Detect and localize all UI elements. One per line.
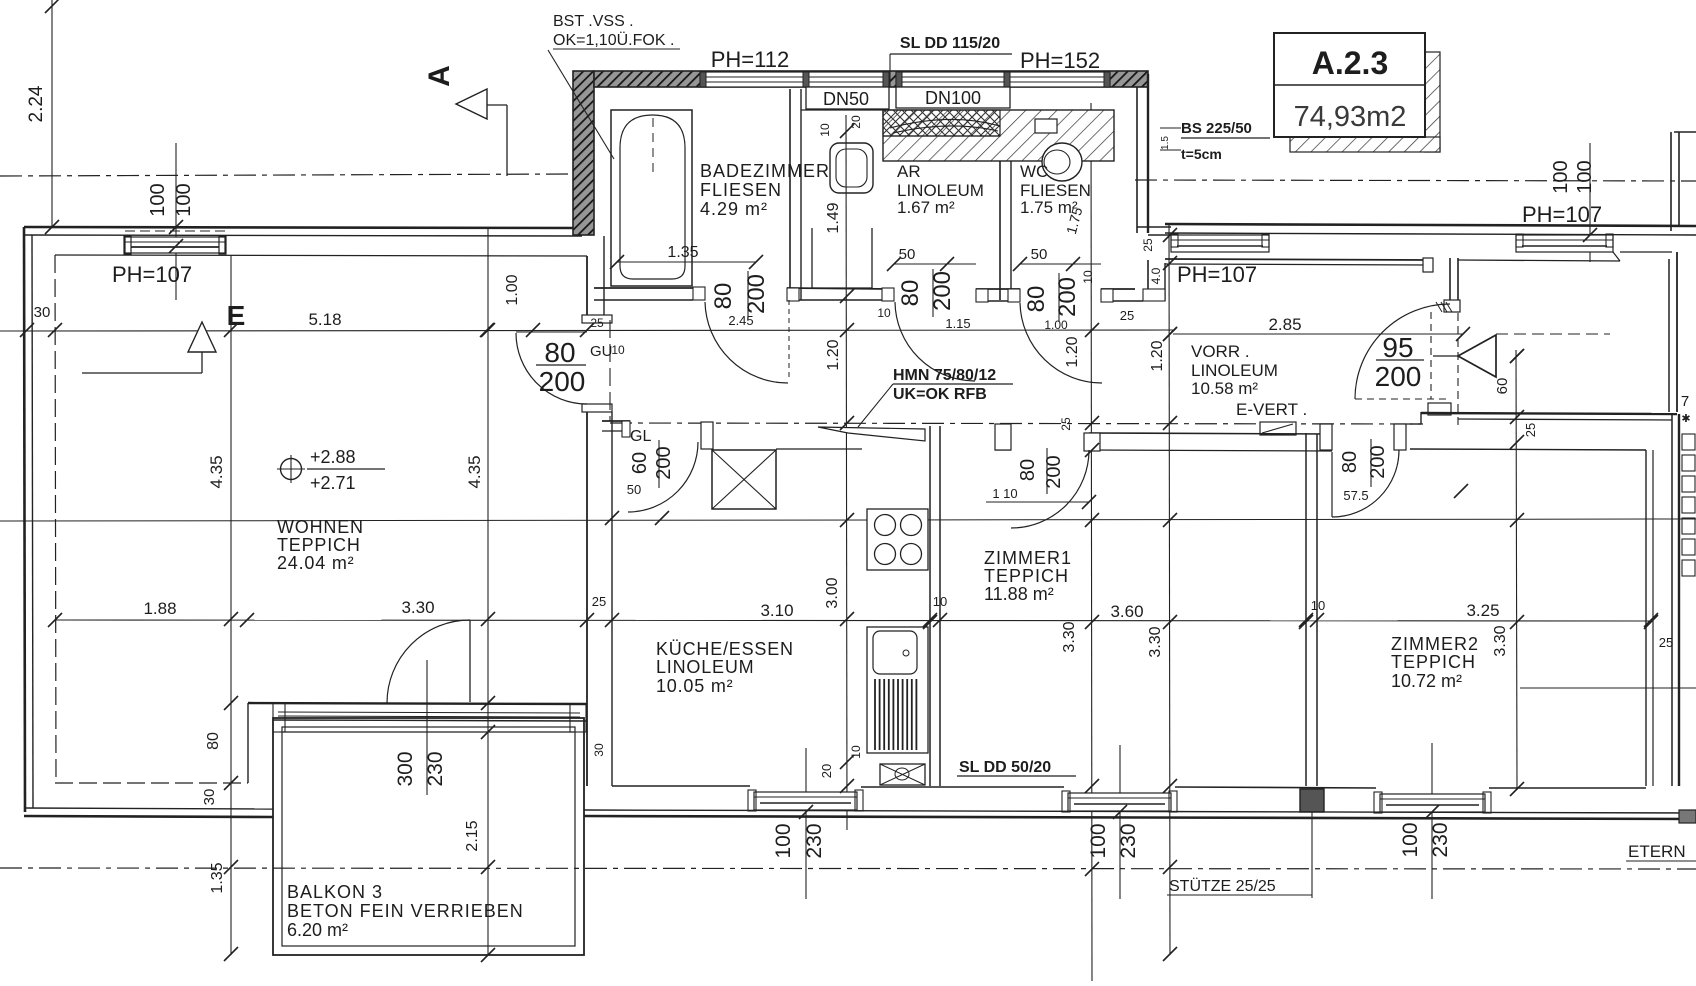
shaft pipe curve xyxy=(890,119,1000,128)
svg-text:UK=OK RFB: UK=OK RFB xyxy=(893,386,987,403)
svg-text:2.45: 2.45 xyxy=(728,313,753,328)
svg-text:10: 10 xyxy=(1311,598,1325,613)
svg-text:2.15: 2.15 xyxy=(464,820,481,851)
svg-text:25: 25 xyxy=(592,594,606,609)
svg-text:3.30: 3.30 xyxy=(401,598,434,617)
svg-text:DN50: DN50 xyxy=(823,89,869,109)
door Z2 leaf+arc 80/200 xyxy=(1331,452,1333,517)
svg-text:10.58 m²: 10.58 m² xyxy=(1191,379,1258,398)
grid line right y688 xyxy=(1520,687,1696,689)
svg-text:ZIMMER1: ZIMMER1 xyxy=(984,548,1072,568)
svg-text:GL: GL xyxy=(630,428,651,445)
vert dim z2-window x1432 xyxy=(1431,743,1433,899)
svg-text:200: 200 xyxy=(1367,445,1389,478)
inner face north-left xyxy=(55,255,587,256)
svg-text:1.35: 1.35 xyxy=(667,244,698,261)
wall bathroom east x1137-1148 xyxy=(1136,87,1138,233)
column STUETZE 25/25 xyxy=(1300,789,1324,812)
svg-text:KÜCHE/ESSEN: KÜCHE/ESSEN xyxy=(656,639,794,659)
dim chain y620 xyxy=(55,620,1651,621)
svg-text:10: 10 xyxy=(1081,270,1095,284)
svg-text:25: 25 xyxy=(590,316,604,330)
dim 1.35 bath xyxy=(617,261,756,263)
door AR arc 80/200 xyxy=(895,302,975,381)
door GU posts xyxy=(582,315,612,323)
vert dim line x1092 xyxy=(1091,103,1092,981)
wall Z2 east outer xyxy=(1671,414,1673,786)
window 100/100 north-left xyxy=(125,237,225,253)
wall north-right outer xyxy=(1165,224,1696,226)
svg-text:60: 60 xyxy=(629,452,651,474)
svg-text:STÜTZE 25/25: STÜTZE 25/25 xyxy=(1169,877,1276,895)
balcony parapet outer xyxy=(273,718,584,955)
svg-text:80: 80 xyxy=(710,283,737,310)
svg-text:FLIESEN: FLIESEN xyxy=(700,180,782,200)
wall east-of-WOHNEN x587-612 lower xyxy=(586,412,588,786)
counter edge right of shaft xyxy=(776,448,862,450)
entry door 95/200 arc + leaf xyxy=(1355,304,1450,399)
svg-text:200: 200 xyxy=(653,446,675,479)
stove 4 plates xyxy=(867,509,928,570)
svg-text:200: 200 xyxy=(1043,455,1065,488)
svg-text:11.88 m²: 11.88 m² xyxy=(984,584,1054,604)
sink unit hatch vertical lines xyxy=(874,679,876,750)
entry arrow (outline triangle) xyxy=(1458,335,1496,377)
door WC arc 80/200 xyxy=(1020,303,1102,383)
svg-text:1.67 m²: 1.67 m² xyxy=(897,198,955,217)
sink unit xyxy=(867,627,928,753)
svg-text:PH=107: PH=107 xyxy=(112,262,192,287)
svg-text:1.35: 1.35 xyxy=(209,862,226,893)
svg-text:BS 225/50: BS 225/50 xyxy=(1181,120,1252,137)
svg-text:TEPPICH: TEPPICH xyxy=(984,566,1069,586)
svg-text:ZIMMER2: ZIMMER2 xyxy=(1391,634,1479,654)
svg-text:t=5cm: t=5cm xyxy=(1181,146,1222,162)
window kitchen 100/230 xyxy=(754,792,857,810)
svg-text:5.18: 5.18 xyxy=(308,310,341,329)
window bathroom PH=112 xyxy=(700,72,889,87)
WC cistern box xyxy=(1035,119,1057,133)
svg-text:VORR .: VORR . xyxy=(1191,342,1250,361)
svg-text:100: 100 xyxy=(772,823,795,858)
wall bathroom top band xyxy=(594,71,1148,87)
svg-text:1.00: 1.00 xyxy=(1044,318,1068,332)
inner face north-right xyxy=(1458,260,1620,261)
section line E-E horizontal y330 xyxy=(0,330,1173,331)
svg-text:LINOLEUM: LINOLEUM xyxy=(656,657,754,677)
svg-text:80: 80 xyxy=(205,732,222,750)
ticks main verticals xyxy=(224,323,238,337)
svg-text:4.0: 4.0 xyxy=(1149,267,1163,284)
vert line window-right x1590 xyxy=(1589,143,1591,262)
svg-text:10: 10 xyxy=(818,123,832,137)
inner face south (dashed) xyxy=(55,782,248,784)
vert dim line x231 (4.35/80/30/1.35) xyxy=(230,255,232,955)
svg-text:1.5: 1.5 xyxy=(1160,136,1171,150)
landing east wall xyxy=(1668,259,1670,412)
section line mid y520 xyxy=(0,519,1696,521)
door bathroom arc 80/200 xyxy=(705,302,788,383)
svg-text:10.05 m²: 10.05 m² xyxy=(656,676,733,696)
door GU 80/200 arc xyxy=(516,333,587,404)
svg-text:PH=107: PH=107 xyxy=(1177,262,1257,287)
elevation marker xyxy=(281,459,302,480)
HMN beam wedge xyxy=(818,427,925,441)
window PH=107 right-a xyxy=(1171,235,1269,252)
svg-text:BETON FEIN VERRIEBEN: BETON FEIN VERRIEBEN xyxy=(287,901,524,921)
balcony inner sill xyxy=(283,731,574,733)
svg-text:E: E xyxy=(227,300,246,331)
svg-text:100: 100 xyxy=(1399,822,1422,857)
svg-text:95: 95 xyxy=(1382,332,1413,363)
svg-text:1.88: 1.88 xyxy=(143,599,176,618)
wall kitchen north + GL door xyxy=(602,420,630,422)
svg-text:80: 80 xyxy=(897,280,924,307)
svg-text:TEPPICH: TEPPICH xyxy=(1391,652,1476,672)
svg-text:80: 80 xyxy=(544,337,575,368)
svg-text:30: 30 xyxy=(34,304,51,321)
NE wing wall above xyxy=(1670,132,1672,231)
svg-text:AR: AR xyxy=(897,162,921,181)
svg-text:20: 20 xyxy=(819,764,834,778)
svg-text:10: 10 xyxy=(933,594,947,609)
svg-text:200: 200 xyxy=(1054,277,1081,317)
vert dim line x488 (4.35/2.15) xyxy=(487,228,489,956)
svg-text:50: 50 xyxy=(627,482,641,497)
svg-text:WOHNEN: WOHNEN xyxy=(277,517,364,537)
svg-text:SL DD 50/20: SL DD 50/20 xyxy=(959,759,1051,776)
svg-text:✱: ✱ xyxy=(1681,413,1690,425)
svg-text:100: 100 xyxy=(1087,823,1110,858)
inner face west (dashed) xyxy=(55,255,56,783)
window WC PH=152 xyxy=(896,72,1110,87)
box DN100 xyxy=(896,87,1010,108)
svg-text:3.10: 3.10 xyxy=(760,601,793,620)
wall VORR west x1148-1165 xyxy=(1147,260,1149,301)
wall step x248 xyxy=(247,703,249,783)
svg-text:3.30: 3.30 xyxy=(1147,626,1164,657)
dim 50 AR xyxy=(894,263,976,265)
svg-text:30: 30 xyxy=(201,789,218,806)
wall Z2 east inner xyxy=(1645,450,1647,786)
vert dim kitchen-window x806 xyxy=(805,748,807,899)
svg-text:1.20: 1.20 xyxy=(825,339,842,370)
wall Z1/Z2 x1306-1317 xyxy=(1305,433,1307,786)
centerline bottom (dash-dot) xyxy=(0,868,1696,869)
svg-text:200: 200 xyxy=(539,366,586,397)
E-VERT panel symbol xyxy=(1260,422,1296,435)
svg-text:+2.71: +2.71 xyxy=(310,473,356,493)
svg-text:3.25: 3.25 xyxy=(1466,601,1499,620)
svg-text:50: 50 xyxy=(1031,246,1048,263)
vert dim line x847 (1.49/1.20/3.00) xyxy=(846,115,847,830)
svg-text:25: 25 xyxy=(1141,238,1155,252)
window Z2 100/230 xyxy=(1380,794,1485,812)
corridor west dash x610 xyxy=(609,320,611,421)
svg-text:4.35: 4.35 xyxy=(207,455,226,488)
wall south inner y786 segments xyxy=(612,785,750,787)
entry door posts xyxy=(1423,258,1433,272)
svg-text:74,93m2: 74,93m2 xyxy=(1294,101,1407,133)
svg-text:BADEZIMMER: BADEZIMMER xyxy=(700,161,830,181)
svg-text:57.5: 57.5 xyxy=(1343,488,1368,503)
svg-text:3.30: 3.30 xyxy=(1492,625,1509,656)
AR fixture rect xyxy=(811,228,813,288)
svg-text:10: 10 xyxy=(611,343,625,357)
svg-text:OK=1,10Ü.FOK .: OK=1,10Ü.FOK . xyxy=(553,31,674,49)
kitchen/Z1 wall x930-940 xyxy=(929,426,931,786)
svg-text:TEPPICH: TEPPICH xyxy=(277,535,361,555)
HMN leader xyxy=(858,384,893,427)
washbasin xyxy=(830,143,873,193)
wall Z2 north y412-418 xyxy=(1421,413,1677,414)
svg-text:200: 200 xyxy=(1375,361,1422,392)
svg-text:80: 80 xyxy=(1023,286,1050,313)
door Z1 arc 80/200 xyxy=(1011,450,1089,528)
svg-text:3.00: 3.00 xyxy=(824,577,841,608)
centerline top (dash-dot) xyxy=(0,174,575,176)
window Z1 100/230 xyxy=(1068,793,1171,811)
svg-text:BALKON 3: BALKON 3 xyxy=(287,882,383,902)
svg-text:60: 60 xyxy=(1494,378,1511,395)
wall south outer band xyxy=(584,810,1696,813)
svg-text:3.60: 3.60 xyxy=(1110,602,1143,621)
svg-text:A: A xyxy=(423,65,456,87)
wall Z1 north y433-450 xyxy=(995,432,1011,434)
leader BST xyxy=(548,50,614,159)
wall bath/AR x790-801 xyxy=(789,89,791,300)
svg-text:200: 200 xyxy=(743,274,770,314)
svg-text:1.00: 1.00 xyxy=(504,274,521,305)
box DN50 xyxy=(806,87,889,109)
svg-text:HMN 75/80/12: HMN 75/80/12 xyxy=(893,367,996,384)
svg-text:SL DD 115/20: SL DD 115/20 xyxy=(900,35,1000,52)
svg-text:3.30: 3.30 xyxy=(1061,621,1078,652)
svg-text:GU: GU xyxy=(590,343,613,360)
svg-text:DN100: DN100 xyxy=(925,88,981,108)
svg-text:1 10: 1 10 xyxy=(992,486,1017,501)
svg-text:10: 10 xyxy=(877,306,891,320)
vert dim line x1170 xyxy=(1169,224,1170,955)
vert dim z1-window x1120 xyxy=(1119,745,1121,899)
wall east-of-WOHNEN x587-612 upper xyxy=(586,256,588,322)
SE corner block xyxy=(1679,810,1696,823)
vent box SL with X xyxy=(880,764,925,785)
svg-text:7: 7 xyxy=(1681,393,1689,410)
vert dim line x52 (2.24) xyxy=(51,0,53,228)
svg-text:100: 100 xyxy=(1574,160,1596,193)
dim line 2.85 VORR xyxy=(1173,333,1463,335)
balcony parapet inner xyxy=(282,727,575,946)
svg-text:PH=107: PH=107 xyxy=(1522,202,1602,227)
east window band xyxy=(1682,434,1695,450)
svg-text:230: 230 xyxy=(1117,823,1140,858)
balcony door leaf+arc 300/230 xyxy=(469,620,471,702)
title box xyxy=(1274,33,1425,137)
svg-text:1.20: 1.20 xyxy=(1064,336,1081,367)
wall bathroom west (hatched) xyxy=(573,71,594,235)
svg-text:1.20: 1.20 xyxy=(1149,340,1166,371)
svg-text:A.2.3: A.2.3 xyxy=(1312,45,1388,81)
wall north-left outer xyxy=(24,227,582,228)
svg-text:1.49: 1.49 xyxy=(825,202,842,233)
toilet WC xyxy=(1042,143,1082,181)
wall west outer xyxy=(24,227,25,812)
vert dim line x1517 (60/25/3.30) xyxy=(1516,350,1517,790)
svg-text:50: 50 xyxy=(899,246,916,263)
svg-text:6.20 m²: 6.20 m² xyxy=(287,920,348,940)
wall AR/WC x1000-1011 xyxy=(999,161,1001,300)
svg-text:25: 25 xyxy=(1120,308,1134,323)
svg-text:4.29 m²: 4.29 m² xyxy=(700,199,768,219)
vert line window-left x176 xyxy=(175,143,177,300)
svg-text:BST .VSS .: BST .VSS . xyxy=(553,13,634,30)
corridor south dash-dot y423 xyxy=(610,423,1425,424)
wall south of bath block y287-300 xyxy=(594,287,705,289)
svg-text:10.72 m²: 10.72 m² xyxy=(1391,671,1462,691)
svg-text:LINOLEUM: LINOLEUM xyxy=(1191,361,1278,380)
svg-text:230: 230 xyxy=(424,751,447,786)
shaft hatched top xyxy=(883,110,1114,161)
svg-text:230: 230 xyxy=(1429,822,1452,857)
svg-text:ETERN: ETERN xyxy=(1628,842,1686,861)
svg-text:300: 300 xyxy=(394,751,417,786)
svg-text:4.35: 4.35 xyxy=(465,455,484,488)
title box hatch shadow xyxy=(1425,52,1440,152)
svg-text:+2.88: +2.88 xyxy=(310,447,356,467)
svg-text:25: 25 xyxy=(1059,417,1073,431)
svg-text:25: 25 xyxy=(1659,635,1673,650)
wall Z2 inner north y449 xyxy=(1410,449,1646,450)
dim 50 WC xyxy=(1020,263,1101,265)
svg-text:24.04 m²: 24.04 m² xyxy=(277,553,354,573)
svg-text:200: 200 xyxy=(929,271,956,311)
svg-text:80: 80 xyxy=(1017,459,1039,481)
svg-text:WC: WC xyxy=(1020,162,1048,181)
svg-text:230: 230 xyxy=(803,823,826,858)
door GL arc 60/200 xyxy=(628,442,698,512)
svg-text:80: 80 xyxy=(1339,451,1361,473)
svg-text:PH=112: PH=112 xyxy=(711,47,789,72)
svg-text:1.15: 1.15 xyxy=(945,316,970,331)
svg-text:30: 30 xyxy=(592,743,606,757)
svg-text:100: 100 xyxy=(1550,160,1572,193)
svg-text:100: 100 xyxy=(147,183,169,216)
shaft box with X (kitchen) xyxy=(712,450,776,509)
Z2 vestibule step xyxy=(1410,423,1421,425)
bathtub xyxy=(611,110,692,286)
svg-text:E-VERT .: E-VERT . xyxy=(1236,400,1307,419)
wall south-west outer xyxy=(24,808,273,809)
svg-text:25: 25 xyxy=(1523,423,1538,437)
entry sill hatch xyxy=(1436,302,1442,312)
svg-text:2.24: 2.24 xyxy=(26,85,47,122)
svg-text:PH=152: PH=152 xyxy=(1020,48,1100,73)
svg-text:10: 10 xyxy=(849,745,863,759)
svg-text:2.85: 2.85 xyxy=(1268,315,1301,334)
wall south WOHNEN / balcony door band xyxy=(248,703,587,704)
window PH=107 right-b xyxy=(1516,235,1613,252)
wall VORR north y258-264 xyxy=(1165,259,1428,260)
